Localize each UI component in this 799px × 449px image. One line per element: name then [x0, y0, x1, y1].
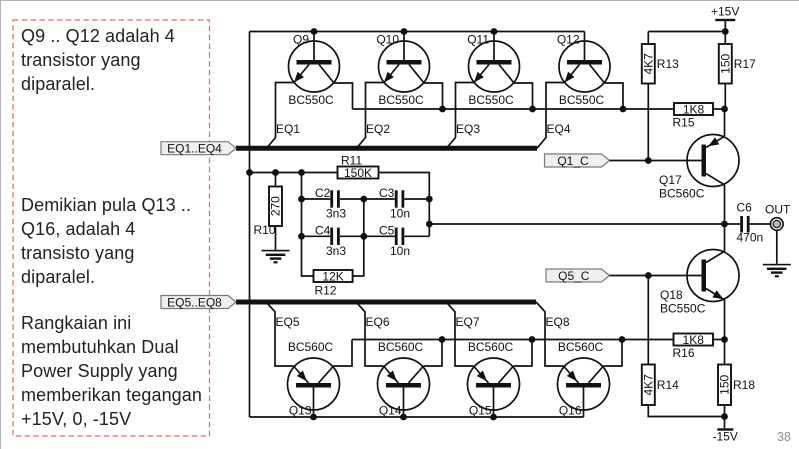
transistor Q10 (BC550C) [357, 32, 443, 149]
svg-text:Q1_C: Q1_C [557, 154, 589, 168]
svg-text:150K: 150K [344, 166, 372, 180]
svg-text:EQ3: EQ3 [456, 122, 480, 136]
wire: R12 right vertical [353, 199, 364, 276]
resistor R17 (150) [719, 44, 757, 84]
wire: output line [429, 223, 724, 225]
transistor Q15 (BC560C) [446, 302, 532, 418]
wire: OUT to ground [776, 230, 778, 263]
svg-text:470n: 470n [737, 231, 764, 245]
svg-text:C5: C5 [379, 224, 395, 238]
svg-text:C3: C3 [379, 186, 395, 200]
wire: bottom collector bus [352, 339, 674, 341]
svg-text:R15: R15 [673, 116, 695, 130]
wire: left rail [249, 32, 251, 418]
transistor Q14 (BC560C) [356, 302, 442, 418]
bus EQ5..EQ8 [236, 300, 536, 305]
svg-text:-15V: -15V [713, 430, 738, 444]
bus EQ1..EQ4 [236, 146, 537, 151]
svg-text:Q11: Q11 [467, 33, 489, 47]
wire: R15 right lead [713, 108, 725, 110]
wire: R13 top lead [647, 32, 649, 45]
svg-text:C2: C2 [315, 186, 331, 200]
transistor Q9 (BC550C) [267, 32, 353, 149]
svg-text:4K7: 4K7 [642, 374, 656, 396]
svg-text:EQ7: EQ7 [456, 315, 480, 329]
resistor R18 (150) [718, 365, 756, 406]
svg-text:R16: R16 [673, 346, 695, 360]
svg-text:Q15: Q15 [469, 404, 492, 418]
transistor Q12 (BC550C) [537, 32, 623, 149]
svg-text:Q13: Q13 [289, 404, 312, 418]
svg-text:BC560C: BC560C [659, 187, 705, 201]
svg-text:BC550C: BC550C [378, 93, 424, 107]
svg-text:EQ2: EQ2 [366, 122, 390, 136]
svg-text:150: 150 [719, 53, 733, 73]
transistor Q17 (BC560C) [659, 109, 739, 224]
transistor Q13 (BC560C) [266, 302, 352, 418]
capacitor C6 (470n) [725, 201, 771, 245]
capacitor C2 (3n3) [315, 186, 346, 221]
resistor R10 branch [275, 173, 277, 187]
svg-text:Q16: Q16 [559, 404, 582, 418]
wire R10 to ground [275, 226, 277, 250]
svg-text:R11: R11 [341, 154, 362, 168]
-15V supply [713, 428, 738, 443]
svg-text:BC560C: BC560C [558, 340, 604, 354]
page number [777, 430, 791, 444]
svg-text:1K8: 1K8 [683, 102, 705, 116]
capacitor C4 (3n3) [315, 224, 346, 259]
wire: top base rail [250, 31, 585, 33]
resistor R15 (1K8) [673, 102, 714, 129]
resistor R12 (12K) [314, 269, 353, 297]
svg-text:EQ4: EQ4 [547, 122, 571, 136]
svg-text:12K: 12K [322, 269, 343, 283]
svg-text:C4: C4 [315, 224, 331, 238]
svg-text:Q17: Q17 [659, 173, 682, 187]
svg-text:EQ6: EQ6 [366, 315, 390, 329]
svg-text:BC550C: BC550C [660, 302, 706, 316]
svg-text:OUT: OUT [765, 203, 791, 217]
+15V supply [648, 5, 739, 32]
wire: C2 leads [302, 198, 364, 200]
svg-text:3n3: 3n3 [326, 207, 346, 221]
svg-text:EQ8: EQ8 [546, 315, 570, 329]
resistor R14 (4K7) [642, 365, 680, 406]
wire: R17 bottom lead [724, 84, 726, 110]
wire: R13 bottom to Q1_C node [647, 84, 649, 161]
svg-text:4K7: 4K7 [642, 53, 656, 75]
resistor R11 (150K) [338, 154, 379, 180]
svg-text:R12: R12 [315, 284, 337, 298]
net label EQ5..EQ8 flag [161, 295, 236, 309]
svg-text:Q14: Q14 [379, 404, 402, 418]
svg-text:BC560C: BC560C [378, 340, 424, 354]
svg-text:EQ5..EQ8: EQ5..EQ8 [167, 295, 222, 309]
wire: R16 right lead [713, 339, 725, 341]
svg-text:BC560C: BC560C [468, 340, 514, 354]
wire: C4 leads [302, 235, 364, 237]
note paragraph 3 [21, 311, 202, 431]
svg-text:150: 150 [718, 374, 732, 394]
svg-text:Q9: Q9 [293, 33, 309, 47]
wire: R14 bottom to -15V node [648, 405, 724, 417]
wire: bottom base rail [250, 416, 584, 418]
svg-text:Q12: Q12 [557, 33, 580, 47]
capacitor C5 (10n) [379, 224, 410, 259]
svg-text:EQ1: EQ1 [276, 122, 300, 136]
resistor R16 (1K8) [673, 333, 714, 360]
wire: R17 top lead [724, 32, 726, 45]
resistor R13 (4K7) [642, 44, 680, 84]
svg-text:EQ1..EQ4: EQ1..EQ4 [167, 142, 222, 156]
svg-text:10n: 10n [390, 244, 410, 258]
wire: feedback line to R11 [250, 172, 338, 174]
svg-text:Q5_C: Q5_C [558, 269, 590, 283]
svg-text:BC550C: BC550C [559, 93, 605, 107]
wire: C5 leads [364, 235, 430, 237]
svg-text:EQ5: EQ5 [276, 315, 300, 329]
svg-text:10n: 10n [390, 207, 410, 221]
wire: top collector bus [353, 108, 675, 110]
net label EQ1..EQ4 flag [161, 142, 236, 156]
svg-text:BC560C: BC560C [288, 340, 334, 354]
resistor R10 (270) [254, 187, 283, 238]
svg-text:R10: R10 [254, 223, 276, 237]
wire: Q5_C to Q18 base [610, 275, 702, 277]
svg-text:Q10: Q10 [376, 33, 399, 47]
note paragraph 1 [21, 24, 175, 96]
svg-text:C6: C6 [737, 201, 753, 215]
svg-text:R13: R13 [657, 57, 679, 71]
ground (R10) [262, 250, 290, 264]
wire: R18 bottom lead [724, 405, 726, 428]
OUT terminal [765, 203, 791, 231]
svg-text:1K8: 1K8 [683, 333, 705, 347]
wire: C3 leads [364, 198, 430, 200]
net label Q5_C flag [546, 269, 610, 283]
svg-text:+15V: +15V [711, 5, 739, 19]
svg-text:3n3: 3n3 [326, 244, 346, 258]
svg-text:Q18: Q18 [660, 288, 683, 302]
wire: C branch vertical [302, 173, 314, 277]
svg-text:BC550C: BC550C [288, 93, 334, 107]
transistor Q11 (BC550C) [447, 32, 533, 149]
wire: Q5_C node down to R14 [647, 276, 649, 365]
note paragraph 2 [21, 193, 191, 289]
net label Q1_C flag [545, 154, 610, 168]
wire: R18 top lead [724, 340, 726, 365]
svg-text:270: 270 [269, 196, 283, 216]
svg-text:R17: R17 [734, 57, 756, 71]
svg-text:R18: R18 [733, 378, 755, 392]
transistor Q16 (BC560C) [536, 302, 622, 418]
ground (OUT) [763, 264, 791, 278]
transistor Q18 (BC550C) [660, 224, 739, 340]
svg-text:R14: R14 [657, 378, 679, 392]
svg-text:BC550C: BC550C [468, 93, 514, 107]
wire: Q1_C to Q17 base [610, 160, 702, 162]
wire: R11 right to vertical [379, 173, 430, 237]
capacitor C3 (10n) [379, 186, 410, 221]
